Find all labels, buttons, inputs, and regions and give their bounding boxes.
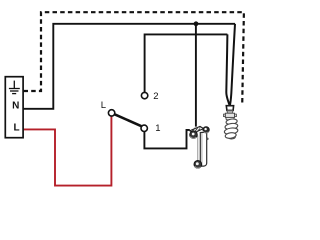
lamp cap rim bbox=[226, 117, 234, 119]
cap side nub right bbox=[235, 114, 237, 117]
lamp cap neck bbox=[227, 111, 232, 114]
wire cord right (neutral drop to lamp) bbox=[230, 24, 235, 105]
svg-text:1: 1 bbox=[155, 123, 160, 134]
spiral loop 4 bbox=[225, 132, 237, 139]
side screw dot bbox=[206, 138, 209, 141]
column shading bbox=[201, 134, 203, 166]
screw A top-right bbox=[203, 127, 209, 133]
svg-text:L: L bbox=[13, 122, 19, 133]
node junction dot bbox=[194, 21, 199, 26]
live wire (red) bbox=[23, 116, 111, 185]
switch terminal 1 bbox=[141, 125, 147, 131]
wire from junction down to lamp holder bbox=[195, 24, 197, 127]
switch lever bbox=[115, 114, 142, 126]
pendant CFL lamp bbox=[224, 106, 239, 139]
lamp cap body bbox=[225, 113, 234, 117]
spiral tail bbox=[229, 137, 236, 139]
svg-text:L: L bbox=[101, 100, 106, 111]
screw B mid-left bbox=[190, 131, 198, 139]
cord grip square bbox=[226, 106, 233, 111]
slab hatch lines bbox=[192, 128, 200, 133]
wire from terminal 1 to lamp holder bbox=[144, 130, 189, 149]
supply box bbox=[5, 77, 23, 138]
cap side nub left bbox=[224, 114, 226, 117]
earth wire (dashed) bbox=[24, 12, 244, 105]
spiral loop 3 bbox=[224, 127, 238, 135]
ground symbol bbox=[9, 81, 20, 94]
neutral wire N bbox=[23, 24, 235, 109]
flex cord grey bbox=[197, 136, 199, 161]
wire from terminal 2 to lamp (switched line) bbox=[145, 34, 228, 92]
spiral loop 1 bbox=[226, 118, 238, 125]
wire cord left (drop to lamp) bbox=[226, 34, 229, 105]
lamp holder bracket (pictorial) bbox=[190, 126, 210, 168]
switch common terminal bbox=[108, 110, 114, 116]
foot screw C bbox=[194, 161, 202, 169]
clamp hatched slab bbox=[190, 126, 204, 133]
column body bbox=[200, 132, 206, 166]
switch terminal 2 bbox=[141, 92, 147, 98]
spiral loop 2 bbox=[225, 123, 238, 131]
svg-text:N: N bbox=[12, 101, 19, 112]
svg-text:2: 2 bbox=[153, 91, 158, 102]
